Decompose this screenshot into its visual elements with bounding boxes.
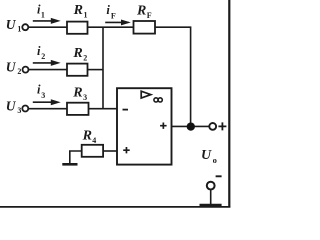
svg-text:R2: R2 — [72, 46, 87, 62]
svg-text:U2: U2 — [6, 60, 22, 76]
svg-text:iF: iF — [106, 3, 116, 20]
svg-text:i1: i1 — [37, 3, 45, 20]
svg-text:RF: RF — [136, 3, 152, 19]
svg-text:i3: i3 — [37, 82, 45, 100]
svg-text:Uo: Uo — [201, 148, 217, 165]
svg-text:U1: U1 — [6, 17, 22, 33]
svg-text:R4: R4 — [82, 129, 97, 146]
svg-text:R1: R1 — [73, 3, 88, 19]
svg-text:U3: U3 — [6, 98, 22, 114]
svg-text:R3: R3 — [72, 85, 87, 102]
svg-text:i2: i2 — [37, 44, 45, 61]
